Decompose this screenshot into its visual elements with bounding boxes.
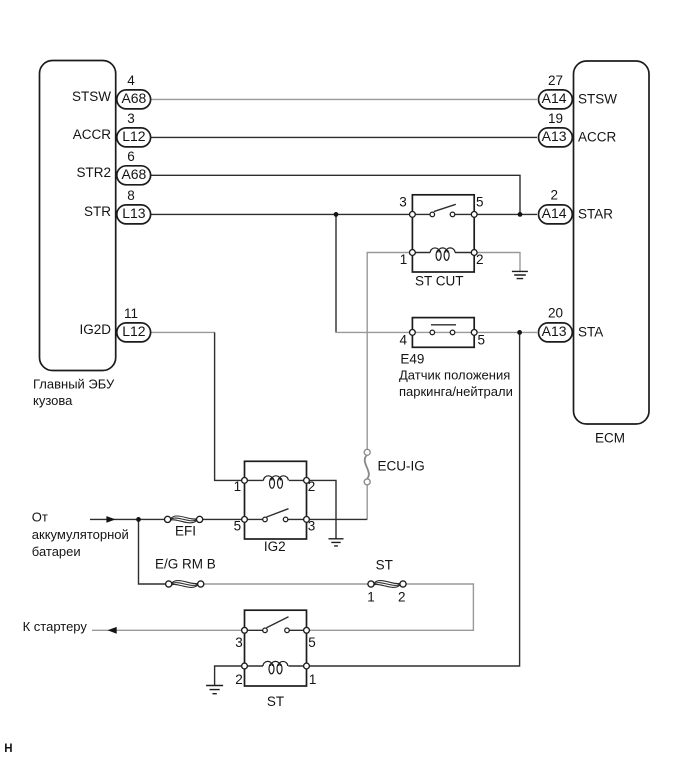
svg-text:ECU-IG: ECU-IG [378,459,425,474]
svg-text:3: 3 [235,635,243,650]
svg-text:1: 1 [309,672,317,687]
svg-text:A13: A13 [542,323,567,339]
svg-text:4: 4 [127,73,135,88]
svg-text:STR2: STR2 [76,165,111,180]
svg-text:5: 5 [476,195,484,210]
svg-text:STSW: STSW [578,92,617,107]
svg-text:A14: A14 [542,205,567,221]
svg-text:1: 1 [234,479,242,494]
svg-text:6: 6 [127,149,135,164]
svg-text:От: От [32,510,48,525]
svg-text:2: 2 [476,252,484,267]
svg-text:1: 1 [400,252,408,267]
svg-text:L13: L13 [122,205,146,221]
svg-text:5: 5 [308,635,316,650]
svg-text:19: 19 [548,111,563,126]
svg-text:E/G RM B: E/G RM B [155,557,216,572]
svg-text:8: 8 [127,188,135,203]
svg-text:A14: A14 [542,90,567,106]
svg-text:ECM: ECM [595,430,625,445]
svg-text:3: 3 [399,195,407,210]
svg-text:Датчик положения: Датчик положения [399,368,510,383]
svg-text:Главный ЭБУ: Главный ЭБУ [33,376,115,391]
svg-text:STAR: STAR [578,207,613,222]
svg-text:ST CUT: ST CUT [415,274,464,289]
svg-text:A13: A13 [542,128,567,144]
svg-text:A68: A68 [121,166,146,182]
svg-text:IG2D: IG2D [79,322,111,337]
svg-text:3: 3 [127,111,135,126]
svg-text:H: H [4,743,12,755]
svg-text:батареи: батареи [32,544,81,559]
svg-text:11: 11 [124,306,138,321]
svg-text:3: 3 [308,518,316,533]
svg-text:ACCR: ACCR [578,130,617,145]
svg-text:4: 4 [399,333,407,348]
svg-text:L12: L12 [122,323,146,339]
svg-text:EFI: EFI [175,524,196,539]
svg-text:IG2: IG2 [264,539,286,554]
svg-text:STA: STA [578,325,603,340]
svg-text:2: 2 [308,479,316,494]
svg-text:STSW: STSW [72,89,111,104]
svg-text:2: 2 [235,672,243,687]
svg-text:1: 1 [367,589,375,604]
svg-text:К стартеру: К стартеру [23,619,88,634]
svg-text:5: 5 [478,333,486,348]
svg-text:ST: ST [267,694,284,709]
svg-text:E49: E49 [400,351,424,366]
svg-text:ST: ST [376,558,393,573]
svg-text:ACCR: ACCR [73,127,112,142]
svg-text:L12: L12 [122,128,146,144]
svg-text:паркинга/нейтрали: паркинга/нейтрали [399,384,513,399]
svg-text:5: 5 [234,518,242,533]
svg-text:STR: STR [84,204,111,219]
svg-text:27: 27 [548,73,563,88]
svg-text:аккумуляторной: аккумуляторной [32,527,129,542]
svg-text:20: 20 [548,306,563,321]
svg-text:2: 2 [398,589,406,604]
svg-text:кузова: кузова [33,393,73,408]
svg-text:2: 2 [551,188,559,203]
svg-text:A68: A68 [121,90,146,106]
